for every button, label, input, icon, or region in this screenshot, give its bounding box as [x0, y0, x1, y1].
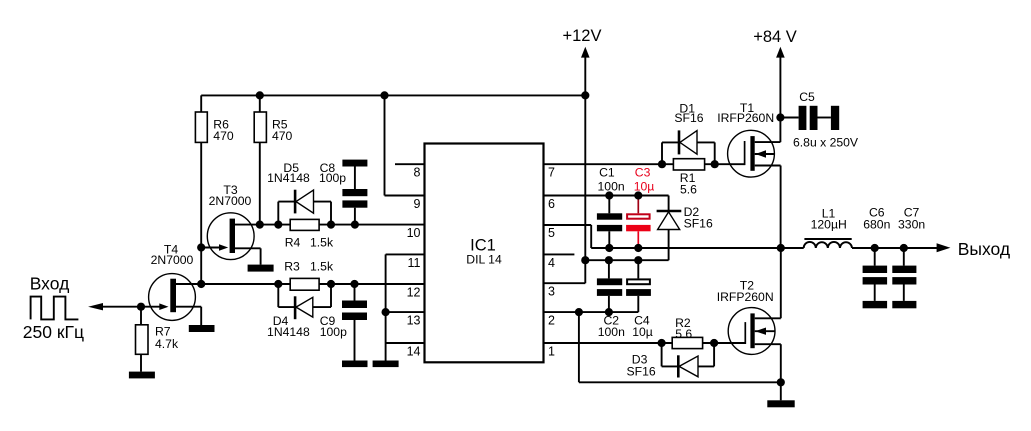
- capacitor C2 100n: [597, 260, 625, 339]
- svg-text:IRFP260N: IRFP260N: [717, 290, 774, 304]
- svg-text:2: 2: [548, 314, 555, 328]
- wire pin3: [544, 282, 586, 284]
- svg-text:SF16: SF16: [674, 111, 703, 125]
- wire output row: [852, 247, 938, 249]
- ground T3 source: [248, 265, 274, 272]
- svg-text:1: 1: [548, 345, 555, 359]
- diode D2 SF16: [657, 196, 713, 261]
- ground pins 11-13-14: [373, 361, 399, 368]
- svg-text:C5: C5: [799, 90, 815, 104]
- capacitor C3 10u electrolytic (red): [626, 165, 654, 248]
- svg-text:SF16: SF16: [627, 364, 656, 378]
- node pin13 ground: [382, 308, 390, 316]
- svg-text:680n: 680n: [863, 217, 890, 231]
- svg-text:250 кГц: 250 кГц: [23, 322, 84, 342]
- svg-text:+12V: +12V: [563, 27, 602, 45]
- svg-text:SF16: SF16: [684, 216, 713, 230]
- svg-text:2N7000: 2N7000: [151, 253, 194, 267]
- output label Выход: [958, 239, 1010, 259]
- +84 V supply label: [753, 28, 797, 46]
- inductor L1 120uH: [804, 206, 852, 248]
- pin 3 label: [548, 285, 555, 299]
- node C8 tap: [351, 221, 359, 229]
- svg-text:5: 5: [548, 226, 555, 240]
- svg-text:13: 13: [407, 314, 421, 328]
- capacitor C7 330n: [892, 206, 925, 301]
- +84V vertical wire: [779, 53, 781, 142]
- pin 6 label: [548, 197, 555, 211]
- svg-text:Выход: Выход: [958, 239, 1010, 259]
- pin 1 label: [548, 345, 555, 359]
- node T2 source ground: [777, 378, 785, 386]
- node input gate: [137, 303, 145, 311]
- node rail-R5: [256, 91, 264, 99]
- transistor T4 2N7000: [141, 243, 201, 326]
- svg-text:5.6: 5.6: [680, 182, 697, 196]
- wire pin14: [386, 342, 425, 344]
- svg-text:1N4148: 1N4148: [267, 325, 310, 339]
- svg-text:4: 4: [548, 256, 555, 270]
- svg-text:Вход: Вход: [30, 273, 70, 293]
- svg-text:100p: 100p: [320, 325, 347, 339]
- +12V arrow: [581, 47, 590, 58]
- node pin2 down: [575, 308, 583, 316]
- svg-text:100n: 100n: [598, 179, 625, 193]
- resistor R4 1.5k: [285, 219, 334, 249]
- svg-text:8: 8: [414, 166, 421, 180]
- svg-text:10µ: 10µ: [634, 179, 655, 193]
- svg-text:6: 6: [548, 197, 555, 211]
- svg-text:100n: 100n: [598, 325, 625, 339]
- pin 2 label: [548, 314, 555, 328]
- node line2 C2: [605, 256, 613, 264]
- node D4 left: [274, 280, 282, 288]
- svg-text:R4: R4: [285, 235, 301, 249]
- ground T4 source: [189, 325, 215, 332]
- wire pin9 horizontal: [385, 195, 425, 197]
- capacitor C9 100p: [320, 284, 367, 361]
- node rail-pin9: [380, 91, 388, 99]
- svg-text:1.5k: 1.5k: [310, 235, 334, 249]
- ground C8 top: [342, 160, 367, 167]
- diode D1 SF16: [662, 101, 715, 164]
- svg-text:2N7000: 2N7000: [209, 194, 252, 208]
- svg-text:9: 9: [414, 197, 421, 211]
- capacitor C6 680n: [863, 206, 891, 301]
- wire R5 branch vertical: [259, 95, 261, 224]
- pin 11 label: [408, 256, 421, 270]
- wire pin6 row: [544, 195, 669, 197]
- svg-text:10: 10: [407, 226, 421, 240]
- node pin2 C2: [605, 308, 613, 316]
- node switch output: [777, 244, 785, 252]
- pin 7 label: [548, 166, 555, 180]
- ground C7: [892, 301, 916, 308]
- pin 10 label: [407, 226, 421, 240]
- pin 9 label: [414, 197, 421, 211]
- wire pin7 row: [544, 163, 745, 165]
- wire pin1 row: [544, 342, 746, 344]
- diode D5 1N4148: [267, 161, 331, 224]
- svg-text:1.5k: 1.5k: [310, 260, 334, 274]
- wire switch-node row line1: [591, 247, 804, 249]
- svg-text:R3: R3: [284, 260, 300, 274]
- node D1 right: [711, 160, 719, 168]
- node C7 tap: [900, 244, 908, 252]
- svg-text:470: 470: [213, 129, 234, 143]
- diode D3 SF16: [627, 343, 715, 378]
- svg-text:C3: C3: [635, 165, 651, 179]
- capacitor C5 6.8u x 250V: [780, 90, 859, 150]
- wire pin12 row left: [176, 283, 290, 285]
- svg-text:IRFP260N: IRFP260N: [717, 111, 774, 125]
- wire input to T4 gate: [100, 306, 141, 308]
- wire pin13: [386, 311, 425, 313]
- node D3 left: [658, 339, 666, 347]
- pin 13 label: [407, 314, 421, 328]
- op-amp IC1 DIL 14 body: [425, 144, 544, 363]
- resistor R1 5.6: [673, 159, 704, 197]
- wire pin2 row: [544, 311, 639, 313]
- node D4 right: [327, 280, 335, 288]
- pin 14 label: [407, 345, 421, 359]
- pin 4 label: [548, 256, 555, 270]
- svg-text:DIL 14: DIL 14: [466, 253, 502, 267]
- transistor T2 IRFP260N: [717, 248, 781, 400]
- wire pin4 stub: [544, 253, 575, 255]
- pin 12 label: [407, 286, 421, 300]
- node line1 C1: [605, 244, 613, 252]
- svg-text:120µH: 120µH: [811, 217, 847, 231]
- +12V vertical wire: [584, 53, 586, 283]
- +12V supply label: [563, 27, 602, 45]
- node T3 gate tap: [197, 243, 205, 251]
- svg-text:100p: 100p: [319, 171, 346, 185]
- svg-text:10µ: 10µ: [632, 325, 653, 339]
- svg-text:3: 3: [548, 285, 555, 299]
- node T4 drain: [197, 280, 205, 288]
- transistor T3 2N7000: [201, 183, 260, 265]
- svg-text:5.6: 5.6: [675, 327, 692, 341]
- input arrow: [88, 303, 103, 310]
- diode D4 1N4148: [267, 284, 331, 339]
- node D3 right: [710, 339, 718, 347]
- svg-text:470: 470: [272, 129, 293, 143]
- wire pin11: [386, 253, 425, 255]
- output arrow: [937, 243, 951, 252]
- wire pin5 jog: [544, 225, 592, 248]
- resistor R5: [254, 112, 292, 143]
- resistor R6: [195, 112, 233, 143]
- resistor R7: [136, 307, 179, 372]
- pin 5 label: [548, 226, 555, 240]
- node T3 drain R5: [256, 221, 264, 229]
- node line1 C3: [634, 244, 642, 252]
- svg-text:4.7k: 4.7k: [155, 337, 179, 351]
- node D5 right: [327, 221, 335, 229]
- capacitor C1 100n: [597, 165, 625, 248]
- ground C5: [831, 106, 839, 130]
- wire pin9 branch vertical: [384, 95, 386, 195]
- capacitor C8 100p: [319, 161, 367, 224]
- +84V arrow: [776, 47, 785, 58]
- resistor R2 5.6: [672, 316, 702, 349]
- wire R6 branch vertical: [200, 95, 202, 284]
- wire pin2 down vertical: [578, 312, 580, 382]
- svg-text:12: 12: [407, 286, 421, 300]
- svg-text:6.8u x 250V: 6.8u x 250V: [793, 135, 859, 149]
- wire ground vertical pins 11-13-14: [385, 254, 387, 360]
- node rail-12V: [581, 91, 589, 99]
- ground C6: [863, 301, 888, 308]
- transistor T1 IRFP260N: [717, 101, 780, 248]
- pin 8 label: [414, 166, 421, 180]
- resistor R3 1.5k: [284, 260, 334, 291]
- wire 12V row line2: [585, 259, 668, 261]
- input square wave symbol: [31, 297, 79, 320]
- input label Вход: [30, 273, 70, 293]
- node pin6 C1: [605, 191, 613, 199]
- svg-text:14: 14: [407, 345, 421, 359]
- node 84V C5: [776, 113, 784, 121]
- node line2 12V: [581, 256, 589, 264]
- node line2 C4: [634, 256, 642, 264]
- node D5 left: [274, 221, 282, 229]
- node D1 left: [658, 160, 666, 168]
- wire pin8 stub: [395, 163, 425, 165]
- svg-text:7: 7: [548, 166, 555, 180]
- wire pin10 row right: [319, 224, 424, 226]
- svg-text:330n: 330n: [898, 217, 925, 231]
- wire bottom row to T2 source: [579, 381, 781, 383]
- input frequency label 250 кГц: [23, 322, 84, 342]
- wire pin12 row right: [319, 283, 424, 285]
- node C9 tap: [350, 280, 358, 288]
- ground C9: [342, 361, 368, 368]
- wire pin10 row left: [235, 224, 290, 226]
- svg-text:1N4148: 1N4148: [267, 171, 310, 185]
- +12V top rail wire: [201, 94, 585, 96]
- ground T2 source: [767, 400, 794, 407]
- svg-text:C1: C1: [599, 165, 615, 179]
- ground R7: [129, 372, 155, 379]
- node pin6 C3: [634, 191, 642, 199]
- svg-text:+84 V: +84 V: [753, 28, 797, 46]
- svg-text:11: 11: [408, 256, 421, 270]
- capacitor C4 10u electrolytic: [626, 260, 653, 339]
- node C6 tap: [871, 244, 879, 252]
